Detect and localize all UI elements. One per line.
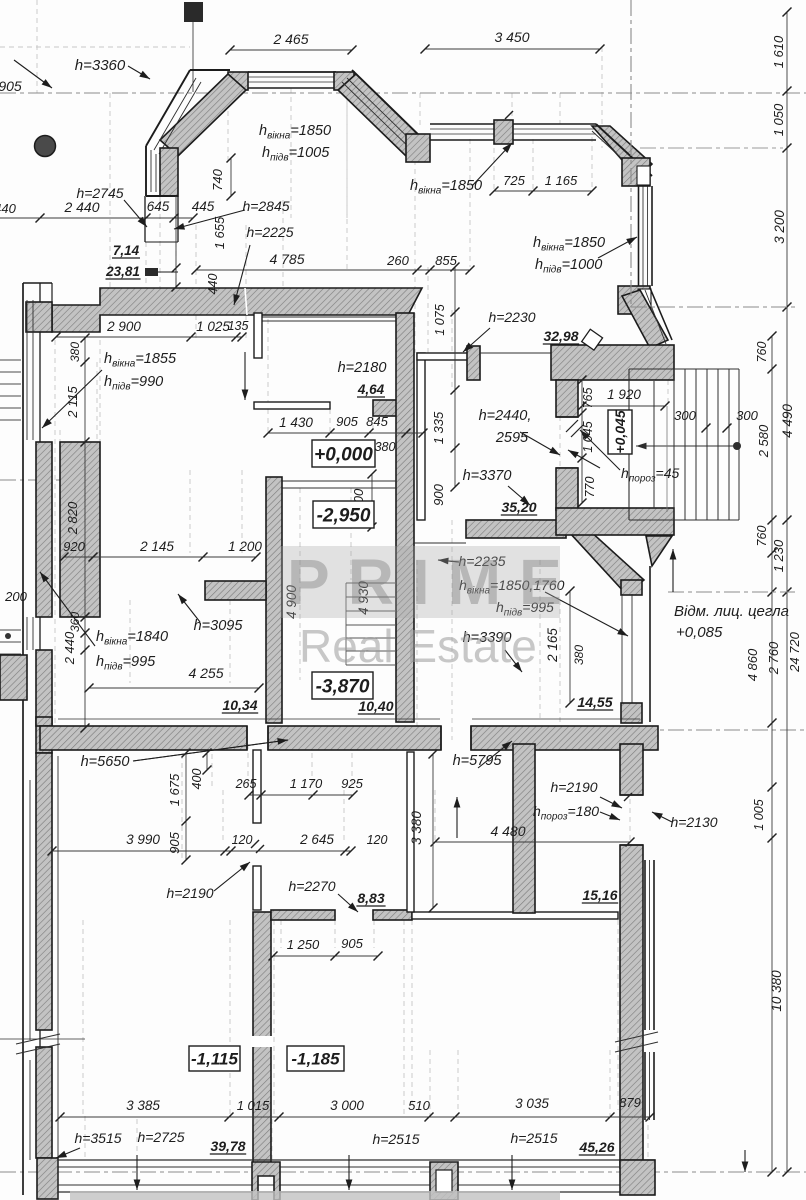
- dim 3990-120-2645-120: [52, 850, 351, 852]
- right wall pier lower: [621, 703, 642, 723]
- svg-text:10 380: 10 380: [769, 970, 784, 1012]
- right bay east pier north: [622, 158, 650, 186]
- porch door jambs: [556, 416, 578, 418]
- elevation -2.950: [313, 501, 374, 528]
- left bay outer edge upper-right: [352, 70, 430, 146]
- dim 400: [206, 753, 208, 770]
- dim 4785-260-855: [196, 269, 470, 271]
- elevation -1.185: [287, 1046, 344, 1071]
- svg-text:1 165: 1 165: [545, 173, 578, 188]
- svg-text:3 200: 3 200: [772, 210, 787, 244]
- watermark bottom strip: [70, 1191, 560, 1200]
- svg-text:2 440: 2 440: [63, 199, 99, 215]
- svg-text:1 005: 1 005: [752, 799, 766, 830]
- svg-text:200: 200: [4, 589, 27, 604]
- dim 920-2145-1200: [64, 556, 256, 558]
- left bay top window band: [248, 71, 336, 73]
- left wall inner face line: [57, 756, 59, 1158]
- right bay outer edge lower-right: [650, 288, 672, 340]
- svg-text:440: 440: [206, 274, 220, 295]
- left bay southeast window band: [430, 123, 494, 125]
- dim 1075-1335-900: [454, 267, 456, 487]
- left niche wall hatched: [60, 442, 100, 617]
- svg-text:4 255: 4 255: [188, 665, 223, 681]
- svg-text:445: 445: [192, 199, 215, 214]
- svg-text:380: 380: [375, 440, 396, 454]
- dim 2465: [230, 49, 352, 51]
- right bay lower-right diagonal wall: [622, 290, 668, 348]
- partition wall y581 room h3095: [205, 581, 266, 600]
- left newel dot: [5, 633, 11, 639]
- svg-text:135: 135: [228, 319, 249, 333]
- svg-text:h=2230: h=2230: [488, 309, 535, 325]
- wall room2440 bottom band: [466, 520, 566, 538]
- left glazing upper: [26, 300, 28, 440]
- svg-text:39,78: 39,78: [210, 1138, 245, 1154]
- door arrow up: [456, 797, 458, 838]
- svg-text:h=2180: h=2180: [338, 360, 387, 376]
- dim 3380: [432, 754, 434, 908]
- right window lines lower: [644, 860, 646, 1030]
- svg-text:1 045: 1 045: [581, 421, 595, 452]
- svg-text:10,34: 10,34: [222, 697, 257, 713]
- dim 2440-645-445: [40, 217, 193, 219]
- svg-text:2 145: 2 145: [139, 539, 174, 554]
- svg-text:2 820: 2 820: [65, 501, 80, 535]
- dim bottom chain: [60, 1116, 650, 1118]
- left bay upper-left diagonal wall: [160, 74, 246, 156]
- shaft left wall: [266, 477, 282, 723]
- svg-text:1 655: 1 655: [212, 216, 227, 249]
- left bay window lines upper-right: [347, 78, 424, 153]
- right wall door jambs: [620, 794, 643, 796]
- svg-text:260: 260: [386, 253, 409, 268]
- svg-text:15,16: 15,16: [582, 887, 617, 903]
- svg-text:h=2225: h=2225: [246, 224, 293, 240]
- left glazing mid: [26, 617, 28, 650]
- axis marker square: [184, 2, 203, 22]
- right bay top window band: [513, 123, 596, 125]
- svg-text:h=2190: h=2190: [166, 885, 213, 901]
- elevation +0.000: [312, 440, 375, 467]
- svg-text:2 115: 2 115: [65, 385, 80, 418]
- column circle: [35, 136, 56, 157]
- svg-text:h=3360: h=3360: [75, 57, 126, 74]
- svg-text:120: 120: [367, 833, 388, 847]
- svg-text:510: 510: [408, 1098, 430, 1113]
- svg-text:1 050: 1 050: [771, 103, 786, 136]
- dim 4255: [89, 687, 259, 689]
- svg-text:Відм. лиц. цегла: Відм. лиц. цегла: [674, 603, 789, 620]
- terrace door jambs: [144, 196, 146, 242]
- svg-text:h=5650: h=5650: [81, 754, 130, 770]
- left chain: [84, 338, 86, 728]
- wall B door jambs: [440, 726, 442, 750]
- room h2180 inner lining: [262, 316, 396, 318]
- partition wall x407 vertical thin: [407, 752, 414, 912]
- svg-text:h=3515: h=3515: [74, 1130, 121, 1146]
- axis dashdot mid-right: [668, 591, 795, 593]
- svg-text:1 170: 1 170: [290, 776, 323, 791]
- door step: [145, 268, 158, 276]
- partition below wall B vertical thin: [253, 750, 261, 823]
- svg-text:3 380: 3 380: [409, 811, 424, 845]
- svg-text:120: 120: [232, 833, 253, 847]
- right bay outer edge upper-right: [596, 124, 652, 176]
- left wall hatch seg1: [36, 442, 52, 617]
- break marks on walls: [251, 840, 259, 848]
- svg-text:4 785: 4 785: [269, 251, 304, 267]
- porch corner triangle: [646, 536, 672, 566]
- room boundary line east of corridor: [414, 542, 466, 544]
- svg-text:855: 855: [435, 253, 457, 268]
- svg-text:1 610: 1 610: [771, 35, 786, 68]
- svg-text:4 860: 4 860: [745, 648, 760, 681]
- svg-text:3 990: 3 990: [126, 832, 160, 847]
- door lines to porch: [480, 352, 551, 354]
- stairs direction line: [636, 445, 737, 447]
- svg-text:h=2440,: h=2440,: [479, 408, 532, 424]
- svg-text:24 720: 24 720: [787, 631, 802, 673]
- left bay top-right pier: [334, 72, 354, 90]
- diagonal wall to porch: [558, 520, 644, 594]
- left bay upper-right diagonal wall: [338, 74, 424, 156]
- svg-text:+0,045: +0,045: [612, 410, 628, 453]
- window pier between bays: [494, 120, 513, 144]
- svg-text:3 385: 3 385: [126, 1098, 160, 1113]
- svg-text:1 230: 1 230: [771, 539, 786, 572]
- svg-text:845: 845: [366, 414, 388, 429]
- room h2180 right wall and corridor east wall: [396, 313, 414, 722]
- left bay west pier: [160, 148, 178, 196]
- svg-text:360: 360: [68, 612, 82, 632]
- svg-text:2595: 2595: [495, 430, 529, 446]
- left wall hatch seg2: [36, 650, 52, 753]
- svg-text:905: 905: [167, 831, 182, 853]
- svg-text:23,81: 23,81: [105, 264, 140, 279]
- shaft beam lines: [282, 480, 396, 482]
- dim 1655-440: [175, 268, 177, 287]
- bottom exterior wall: [42, 1159, 655, 1161]
- svg-text:3 450: 3 450: [494, 29, 529, 45]
- lower horizontal thin wall east part: [412, 912, 618, 919]
- left bay outer edge upper-left: [146, 70, 190, 146]
- svg-text:1 675: 1 675: [167, 773, 182, 806]
- svg-text:380: 380: [68, 342, 82, 362]
- svg-text:905: 905: [336, 414, 358, 429]
- porch left wall lower: [556, 468, 578, 510]
- dim 740: [230, 158, 232, 196]
- svg-text:2 465: 2 465: [272, 31, 308, 47]
- porch left wall upper: [556, 380, 578, 417]
- bottom-left corner block: [37, 1158, 58, 1199]
- elevation +0.045: [608, 410, 632, 454]
- lower horizontal wall west part: [271, 910, 335, 920]
- wall B inner lining: [58, 718, 440, 720]
- svg-text:879: 879: [619, 1095, 641, 1110]
- svg-text:h=2515: h=2515: [372, 1131, 419, 1147]
- svg-text:h=2515: h=2515: [510, 1130, 557, 1146]
- dim 1250-905: [273, 955, 378, 957]
- svg-text:h=2845: h=2845: [242, 198, 289, 214]
- svg-text:35,20: 35,20: [501, 499, 536, 515]
- right exterior wall lower: [620, 744, 643, 795]
- left wall break cross line: [0, 1038, 85, 1040]
- partition room h2180 bottom wall: [254, 402, 330, 409]
- corridor thin wall east: [417, 353, 425, 520]
- left wall break symbol: [16, 1034, 60, 1044]
- right bay east window band: [651, 186, 653, 286]
- svg-text:905: 905: [341, 936, 363, 951]
- svg-text:3 035: 3 035: [515, 1096, 549, 1111]
- wall A joint line: [245, 288, 247, 315]
- right wall window mid-right: [621, 594, 623, 703]
- svg-text:770: 770: [583, 477, 597, 498]
- dim 2165 line: [569, 591, 571, 703]
- svg-text:+0,085: +0,085: [676, 624, 723, 641]
- svg-text:1 250: 1 250: [287, 937, 320, 952]
- svg-text:2 440: 2 440: [62, 631, 77, 665]
- svg-text:1 920: 1 920: [607, 387, 641, 402]
- svg-text:-2,950: -2,950: [317, 505, 371, 526]
- dim 4480: [435, 841, 630, 843]
- thin wall top of room h2440: [417, 353, 470, 360]
- svg-text:h=5795: h=5795: [453, 753, 503, 769]
- axis vertical right bay: [630, 0, 632, 307]
- svg-text:14,55: 14,55: [577, 694, 612, 710]
- svg-text:1 430: 1 430: [279, 415, 313, 430]
- partition stub above hatch: [253, 866, 261, 910]
- dim 3450: [425, 48, 600, 50]
- svg-text:h=2725: h=2725: [137, 1129, 184, 1145]
- stairs exterior: [629, 368, 739, 370]
- dim 765-1045-770: [581, 380, 583, 503]
- wall B main horizontal wall: [36, 717, 52, 726]
- svg-text:h=2190: h=2190: [550, 779, 597, 795]
- svg-text:2 900: 2 900: [106, 319, 141, 334]
- svg-text:760: 760: [755, 342, 769, 363]
- dim 2900-1025-135: [56, 336, 242, 338]
- svg-text:300: 300: [736, 408, 758, 423]
- entry arrow up right side: [672, 549, 674, 592]
- svg-text:1 200: 1 200: [228, 539, 262, 554]
- axis dashdot y307: [631, 306, 795, 308]
- right bay east pier south: [618, 286, 650, 314]
- svg-text:2 760: 2 760: [766, 641, 781, 675]
- porch bottom band: [556, 508, 674, 535]
- dim 1675-905: [185, 753, 187, 860]
- svg-text:+0,000: +0,000: [314, 444, 373, 465]
- svg-text:1 075: 1 075: [433, 304, 447, 335]
- svg-text:32,98: 32,98: [543, 328, 578, 344]
- svg-text:PRIME: PRIME: [287, 546, 580, 618]
- svg-text:h=3370: h=3370: [463, 468, 512, 484]
- dim 300-300: [702, 424, 711, 433]
- partition room h2180 left wall: [254, 313, 262, 358]
- svg-text:380: 380: [572, 645, 586, 665]
- left bay top-left pier: [228, 72, 248, 90]
- wall h2270 vertical: [513, 744, 535, 913]
- svg-text:3 000: 3 000: [330, 1098, 364, 1113]
- door block h2180: [373, 400, 412, 416]
- svg-text:920: 920: [63, 539, 85, 554]
- svg-text:h=2270: h=2270: [288, 878, 335, 894]
- svg-text:725: 725: [503, 173, 525, 188]
- right wall break symbol: [615, 1032, 658, 1042]
- left outdoor stairs lower flight: [0, 629, 21, 631]
- left wall hatch seg4: [36, 1047, 52, 1158]
- svg-text:740: 740: [210, 168, 225, 190]
- dim 725-1165: [494, 190, 592, 192]
- bottom wall stoop left: [252, 1162, 280, 1200]
- axis centerlines: [0, 92, 806, 94]
- svg-text:4 480: 4 480: [490, 823, 525, 839]
- left outer wall line: [22, 283, 24, 1195]
- svg-text:8,83: 8,83: [357, 890, 384, 906]
- dim 265-1170-925: [249, 794, 353, 796]
- svg-text:2 580: 2 580: [756, 424, 771, 458]
- svg-text:-1,115: -1,115: [191, 1050, 238, 1069]
- wall A main horizontal wall: [52, 288, 422, 332]
- shaft basement stair treads: [346, 582, 396, 584]
- right dim chain outer: [786, 12, 788, 1172]
- left glazing low: [29, 780, 31, 1040]
- elevation -3.870: [312, 672, 373, 699]
- right bay upper-right diagonal wall: [592, 126, 652, 178]
- left wall top white band lines: [23, 282, 52, 284]
- right dim chain inner: [771, 336, 773, 1172]
- svg-text:h=2745: h=2745: [76, 185, 123, 201]
- dim 2100: [371, 474, 373, 527]
- svg-text:10,40: 10,40: [358, 698, 393, 714]
- central lower wall hatched: [253, 912, 271, 1168]
- left bay east pier: [406, 134, 430, 162]
- svg-text:900: 900: [431, 483, 446, 505]
- left wall hatch seg3: [36, 753, 52, 1030]
- dim 1430-905-845: [268, 432, 423, 434]
- svg-text:265: 265: [235, 777, 257, 791]
- svg-text:440: 440: [0, 201, 17, 216]
- svg-text:1 025: 1 025: [196, 319, 230, 334]
- svg-text:7,14: 7,14: [113, 243, 140, 258]
- guide lines: [36, 0, 38, 93]
- porch top band: [551, 345, 674, 380]
- svg-text:2 165: 2 165: [545, 628, 560, 663]
- svg-text:1 335: 1 335: [431, 411, 446, 444]
- bottom wall stoop right: [430, 1162, 458, 1200]
- svg-text:-1,185: -1,185: [291, 1050, 340, 1069]
- bottom-right corner block: [620, 1160, 655, 1195]
- svg-text:2 645: 2 645: [299, 832, 334, 847]
- dim 1920: [582, 405, 665, 407]
- svg-text:h=3095: h=3095: [194, 618, 244, 634]
- door leaf diamond on diagonal: [582, 329, 603, 350]
- elevation -1.115: [189, 1046, 240, 1071]
- svg-text:760: 760: [755, 526, 769, 547]
- terrace parapet corner hatch: [26, 302, 52, 332]
- svg-text:400: 400: [190, 769, 204, 790]
- arrow bottom right: [744, 1150, 746, 1172]
- watermark band: [280, 546, 560, 618]
- svg-text:905: 905: [0, 78, 22, 94]
- entrance arrow top-left: [14, 60, 52, 88]
- svg-text:765: 765: [581, 388, 595, 409]
- left outdoor stairs upper flight: [0, 359, 21, 361]
- svg-text:Real Estate: Real Estate: [299, 620, 537, 672]
- left neighbour wall block: [0, 655, 27, 700]
- svg-text:45,26: 45,26: [578, 1139, 614, 1155]
- svg-text:645: 645: [147, 199, 170, 214]
- svg-text:4,64: 4,64: [357, 382, 385, 397]
- svg-text:4 490: 4 490: [780, 404, 795, 438]
- left bay window lines upper-left: [154, 78, 196, 150]
- svg-text:1 015: 1 015: [237, 1098, 270, 1113]
- svg-text:925: 925: [341, 776, 363, 791]
- svg-text:-3,870: -3,870: [316, 676, 370, 697]
- hatch block north of porch room: [467, 346, 480, 380]
- svg-text:h=2130: h=2130: [670, 814, 717, 830]
- svg-text:300: 300: [674, 408, 696, 423]
- right wall pier upper: [621, 580, 642, 595]
